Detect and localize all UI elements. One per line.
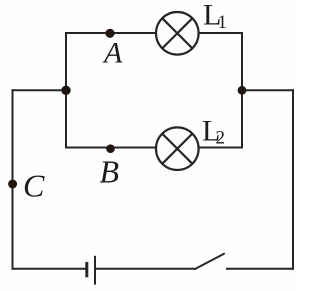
wire outer left vertical [12,90,14,268]
wire bottom branch left segment [66,147,156,149]
wire top branch left segment [66,32,156,34]
node A [105,29,114,38]
label C [23,167,45,203]
svg-text:A: A [102,37,123,70]
wire inner box right vertical [241,33,243,148]
svg-text:C: C [23,167,45,203]
wire bottom branch right segment [199,147,242,149]
switch S1 [195,254,224,269]
wire switch right segment to right corner [227,268,293,270]
lamp L1 [156,12,199,55]
wire inner box left vertical [65,33,67,148]
label L2 [202,114,225,148]
node C [8,180,17,189]
node B [106,144,115,153]
wire left junction to outer left [13,89,67,91]
wire top branch right segment [199,32,242,34]
label A [102,37,123,70]
wire battery to switch [96,268,195,270]
svg-text:2: 2 [216,128,226,149]
battery B1 [87,256,95,285]
wire right junction to outer right [242,89,293,91]
junction right [238,86,247,95]
label B [100,153,120,189]
svg-text:B: B [100,153,120,189]
wire outer right vertical [292,90,294,268]
lamp L2 [156,127,199,170]
label L1 [203,0,227,33]
wire bottom from left corner to battery [13,268,86,270]
junction left [61,86,70,95]
svg-text:1: 1 [218,12,228,33]
